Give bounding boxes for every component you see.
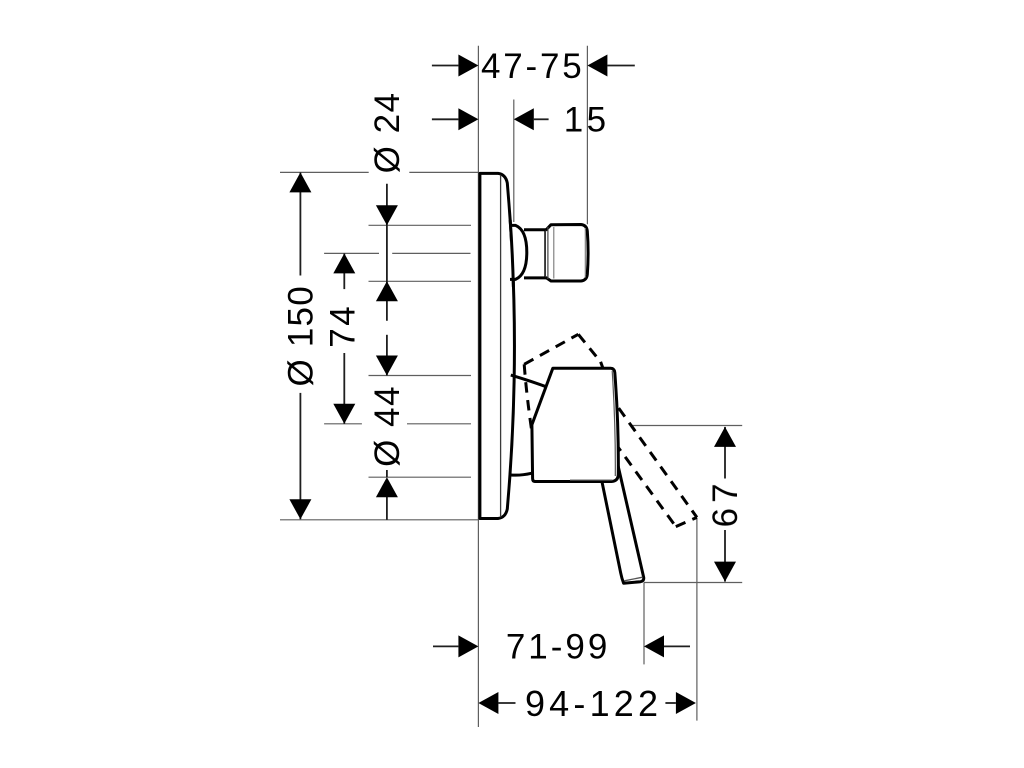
svg-text:15: 15 bbox=[564, 101, 610, 140]
svg-text:Ø 150: Ø 150 bbox=[281, 285, 320, 386]
svg-text:71-99: 71-99 bbox=[506, 628, 611, 667]
svg-text:67: 67 bbox=[706, 478, 745, 527]
svg-text:Ø 24: Ø 24 bbox=[368, 91, 407, 173]
svg-text:47-75: 47-75 bbox=[481, 47, 585, 86]
svg-text:74: 74 bbox=[324, 304, 363, 348]
svg-text:Ø 44: Ø 44 bbox=[368, 385, 407, 467]
svg-text:94-122: 94-122 bbox=[525, 683, 662, 724]
